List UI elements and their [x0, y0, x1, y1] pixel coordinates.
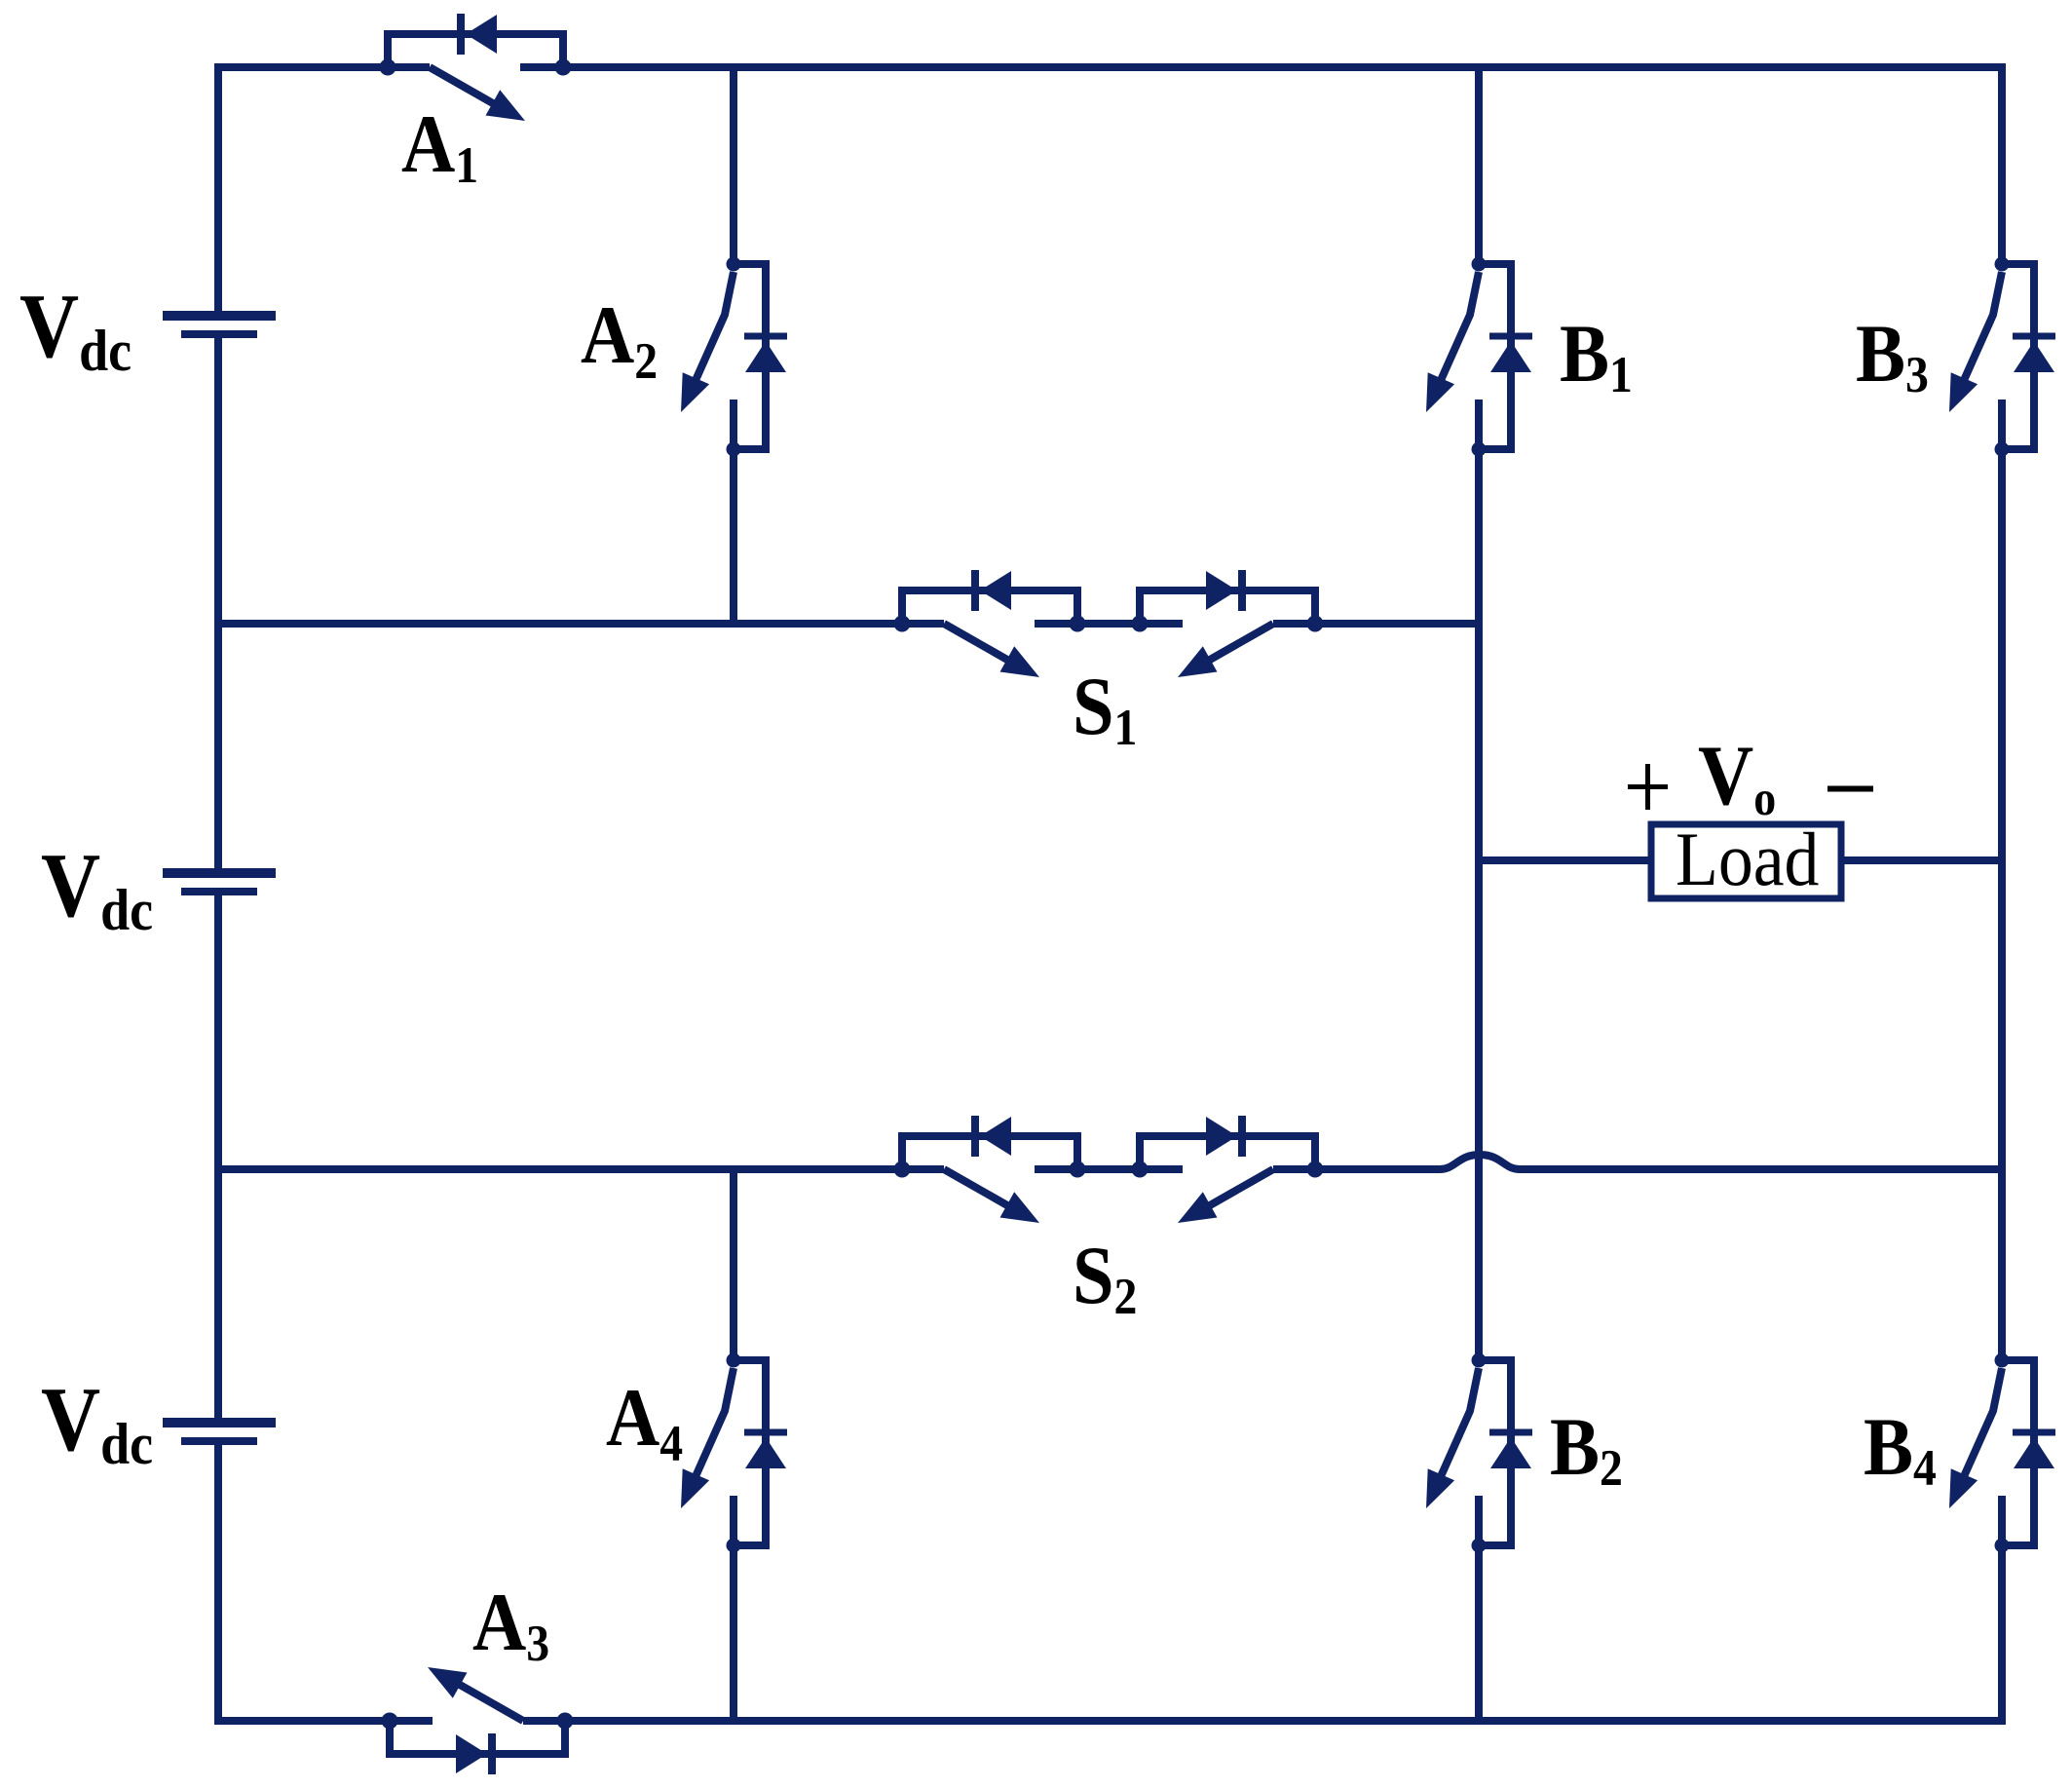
switch A1 (with anti-parallel diode) [380, 14, 572, 121]
switch A3 (with anti-parallel diode) [382, 1667, 574, 1774]
wire: output leg middle (B1 to B2 through S1 node and load node) [1475, 449, 1483, 1360]
wire: phase-A inner leg (S2 rail to A4) [730, 1165, 737, 1360]
switch B2 (with anti-parallel diode) [1426, 1353, 1532, 1553]
label output voltage plus sign [1628, 764, 1668, 810]
wire: S2 row rail centre [1077, 1165, 1140, 1173]
wire: output leg upper (top rail to B1) [1475, 63, 1483, 264]
battery Vdc 3 [163, 1423, 276, 1441]
switch A2 (with anti-parallel diode) [681, 257, 787, 457]
bidirectional switch S2 right cell [1132, 1116, 1324, 1223]
wire: left rail bottom [214, 1441, 222, 1725]
bidirectional switch S1 right cell [1132, 570, 1324, 677]
svg-text:Vdc: Vdc [19, 276, 132, 384]
wire: S1 row rail left [218, 620, 902, 628]
battery Vdc 2 [163, 873, 276, 892]
switch A4 (with anti-parallel diode) [681, 1353, 787, 1553]
wire: left rail segment 3 [214, 892, 222, 1420]
switch B1 (with anti-parallel diode) [1426, 257, 1532, 457]
wire: load lead right [1841, 856, 2002, 864]
wire: S2 row rail left [218, 1165, 902, 1173]
wire: phase-A inner leg (A4 to bottom rail) [730, 1545, 737, 1725]
wire: phase-A inner leg lower (A2 to S1 rail) [730, 449, 737, 628]
svg-text:B4: B4 [1864, 1401, 1937, 1496]
wire: S2 row rail right with hop over output leg [1315, 1155, 2002, 1169]
wire: phase-A inner leg upper (top rail to A2) [730, 63, 737, 264]
load box [1651, 824, 1841, 898]
wire: right rail upper [1998, 63, 2006, 264]
svg-text:S1: S1 [1073, 661, 1137, 755]
svg-text:B3: B3 [1856, 308, 1929, 402]
svg-text:Load: Load [1676, 818, 1819, 901]
bidirectional switch S1 left cell [894, 570, 1086, 677]
svg-text:A3: A3 [472, 1577, 549, 1671]
wire: load lead left [1479, 856, 1656, 864]
switch B4 (with anti-parallel diode) [1949, 1353, 2055, 1553]
svg-text:A2: A2 [581, 289, 658, 389]
wire: bottom rail right segment [565, 1717, 2006, 1725]
svg-text:A1: A1 [401, 98, 478, 193]
wire: left rail segment 2 [214, 334, 222, 870]
switch B3 (with anti-parallel diode) [1949, 257, 2055, 457]
wire: top rail right segment [563, 63, 2006, 71]
wire: S1 row rail right [1315, 620, 1479, 628]
wire: left rail top [214, 63, 222, 314]
wire: S1 row rail centre [1077, 620, 1140, 628]
bidirectional switch S2 left cell [894, 1116, 1086, 1223]
wire: right rail lower [1998, 1545, 2006, 1725]
svg-text:Vo: Vo [1698, 728, 1776, 825]
svg-text:Vdc: Vdc [41, 835, 153, 943]
wire: top rail left segment [214, 63, 388, 71]
wire: right rail middle [1998, 449, 2006, 1360]
battery Vdc 1 [163, 316, 276, 334]
svg-text:S2: S2 [1073, 1230, 1137, 1324]
svg-text:Vdc: Vdc [41, 1369, 153, 1477]
svg-text:B1: B1 [1560, 308, 1633, 402]
wire: bottom rail left segment [214, 1717, 390, 1725]
svg-text:A4: A4 [606, 1372, 683, 1471]
svg-text:B2: B2 [1550, 1401, 1623, 1496]
label output voltage minus sign [1827, 786, 1873, 792]
wire: output leg lower (B2 to bottom rail) [1475, 1545, 1483, 1725]
